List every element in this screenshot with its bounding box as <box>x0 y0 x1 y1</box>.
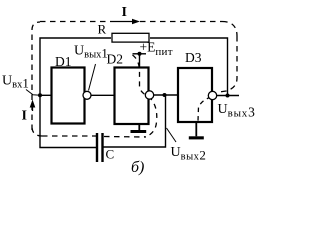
svg-text:б): б) <box>131 159 144 176</box>
arrow I (top, pointing right) <box>111 19 140 25</box>
ground (D2): bar <box>131 130 147 133</box>
inversion bubble D3 output <box>208 91 216 99</box>
svg-text:I: I <box>122 5 127 20</box>
current loop I: left dashed segment <box>32 22 40 130</box>
current loop I: bottom-left dashed corner <box>32 128 42 136</box>
current loop I: top-right dashed corner <box>222 22 237 37</box>
wire: D1 input <box>40 94 51 96</box>
svg-text:D1: D1 <box>55 54 72 69</box>
inversion bubble D2 output <box>145 91 153 99</box>
inverter D1 <box>52 68 85 124</box>
junction: D2 output node U_вых2 <box>163 93 167 97</box>
leader line from U_вых1 label to D1 output bubble <box>89 64 96 91</box>
wire: R left terminal across top-left down to D1 input node <box>40 38 111 95</box>
capacitor C: left plate <box>96 133 98 162</box>
capacitor C: right plate <box>101 133 103 162</box>
wire: D3 output U_вых3 <box>217 95 239 97</box>
power terminal +Eпит: stub wire <box>133 53 147 55</box>
current loop: dashed path from D3 output bubble to D3 ground <box>198 97 211 121</box>
current loop I: right dashed segment <box>219 36 237 92</box>
current loop I: top dashed segment <box>40 21 222 23</box>
junction: +Eпит node <box>138 52 142 56</box>
ground (D2): pin stub <box>138 125 140 131</box>
svg-text:D2: D2 <box>107 52 124 67</box>
arrow I (left, pointing up) <box>30 100 36 112</box>
wire: D1 output to D2 input <box>91 94 114 96</box>
svg-text:R: R <box>98 22 107 37</box>
inverter D3 <box>178 68 212 122</box>
svg-text:I: I <box>22 109 27 124</box>
wire: +Eпит node to D2 power pin <box>139 54 141 67</box>
current loop: dashed curve from +Eпит through D2 output to C <box>133 55 157 137</box>
svg-text:C: C <box>106 147 115 162</box>
resistor R <box>112 33 149 42</box>
svg-text:D3: D3 <box>185 50 202 65</box>
ground (D3): pin stub <box>195 123 197 136</box>
wire: D1 input node down to capacitor C left plate <box>40 95 96 147</box>
ground (D3): bar <box>189 136 204 139</box>
leader line from U_вх1 label to D1 input node <box>26 90 40 96</box>
wire: R right terminal to U_вых3 node <box>150 38 228 96</box>
junction: D1 input node <box>38 93 42 97</box>
wire: D2 output node down to capacitor C right plate <box>104 95 166 147</box>
inverter D2 <box>115 68 149 125</box>
current loop I: bottom dashed segment through capacitor C <box>42 136 146 137</box>
wire: D2 output to D3 input <box>154 94 177 96</box>
junction: U_вых3 node <box>226 94 230 98</box>
leader line from U_вых2 label to D2 output wire <box>167 128 177 142</box>
inversion bubble D1 output <box>83 91 91 99</box>
